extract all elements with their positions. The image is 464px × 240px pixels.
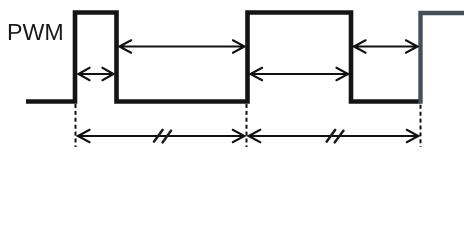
break mark // on period2 arrow bbox=[327, 130, 344, 143]
arrow period2 (bottom) bbox=[249, 130, 419, 142]
arrow pulse2 width (inner, y=74) bbox=[251, 68, 349, 80]
arrow gap between pulse2 and gray edge (y=46.5) bbox=[354, 40, 418, 52]
arrow pulse1 width (inner, y=74) bbox=[79, 68, 114, 80]
arrow gap between pulse1 and pulse2 (y=46.5) bbox=[120, 40, 245, 52]
arrow period1 (bottom) bbox=[78, 130, 244, 142]
svg-text:PWM: PWM bbox=[7, 19, 64, 45]
wire gray final rising edge and high level bbox=[421, 13, 464, 104]
node dashed drop line 3 bbox=[420, 105, 422, 147]
node dashed drop line 2 bbox=[246, 104, 248, 147]
wire PWM waveform (black trace) bbox=[26, 13, 421, 102]
break mark // on period1 arrow bbox=[154, 130, 171, 143]
node dashed drop line 1 bbox=[75, 104, 77, 147]
